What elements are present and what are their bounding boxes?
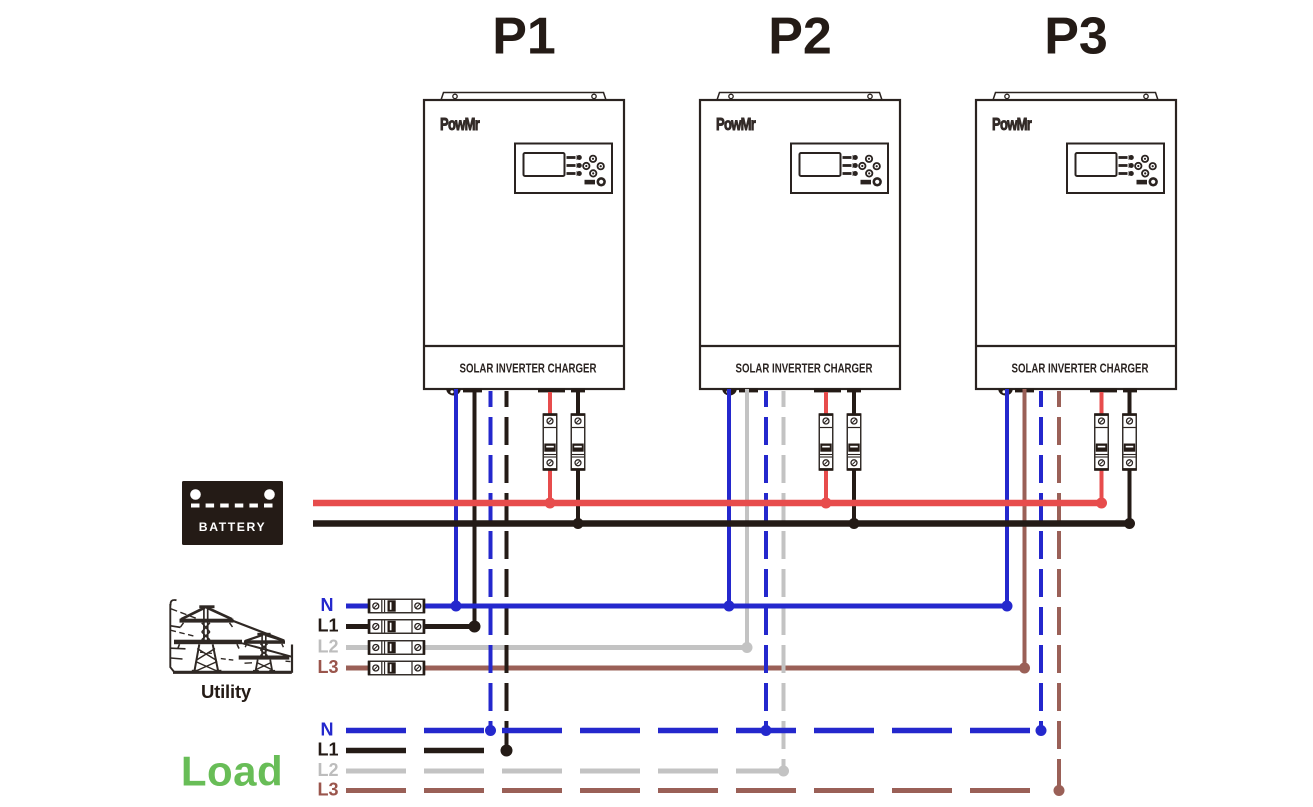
breaker P2 battery positive xyxy=(819,413,833,470)
svg-text:L1: L1 xyxy=(317,740,338,760)
inverter P2 separator line xyxy=(701,345,899,347)
breaker P3 battery positive xyxy=(1095,413,1109,470)
inverter P3 body xyxy=(976,100,1176,389)
svg-text:L2: L2 xyxy=(317,637,338,657)
svg-text:PowMr: PowMr xyxy=(716,115,756,134)
junction P3 N out / load N bus xyxy=(1036,725,1047,736)
junction P2 N out / load N bus xyxy=(761,725,772,736)
wire battery negative bus (black) xyxy=(313,520,1130,527)
inverter P1 mounting bracket xyxy=(441,93,606,101)
breaker utility N xyxy=(368,599,425,613)
wire load L1 bus (black dashed) xyxy=(346,748,484,754)
inverter P3 separator line xyxy=(977,345,1175,347)
wire load L3 bus (brown dashed) xyxy=(346,788,1048,793)
inverter P3 mounting bracket xyxy=(993,93,1158,101)
svg-text:L2: L2 xyxy=(317,760,338,780)
svg-text:PowMr: PowMr xyxy=(440,115,480,134)
wire utility N bus (blue) xyxy=(346,604,1007,609)
junction P2 battery+ / red bus xyxy=(821,498,832,509)
junction P2 L2 / utility L2 bus xyxy=(742,642,753,653)
wire P1 AC input N (blue) xyxy=(454,389,458,606)
svg-text:PowMr: PowMr xyxy=(992,115,1032,134)
wire P3 AC output N (blue dashed) xyxy=(1039,391,1043,731)
wire P1 battery positive (red) xyxy=(548,392,552,503)
svg-text:P3: P3 xyxy=(1044,8,1108,66)
svg-text:Load: Load xyxy=(181,748,283,795)
battery icon xyxy=(182,481,283,545)
wire utility L2 bus (gray) xyxy=(346,645,747,650)
wire utility L3 bus (brown) xyxy=(346,666,1025,671)
junction P1 N out / load N bus xyxy=(485,725,496,736)
breaker utility L1 xyxy=(368,620,425,634)
inverter P1 body xyxy=(424,100,624,389)
wire P1 AC output L1 (dashed) xyxy=(505,391,509,751)
inverter P1 separator line xyxy=(425,345,623,347)
junction P2 battery- / black bus xyxy=(849,518,860,529)
inverter P3 xyxy=(976,93,1176,396)
junction P2 N / utility N bus xyxy=(724,601,735,612)
utility icon (transmission towers) xyxy=(170,600,292,673)
wire P1 AC input L1 xyxy=(473,389,477,627)
inverter P1 bottom terminal details xyxy=(446,389,585,396)
svg-text:P2: P2 xyxy=(768,8,832,66)
wire P3 AC output L3 (dashed) xyxy=(1057,391,1061,791)
wire load L2 bus (gray dashed) xyxy=(346,769,784,774)
junction P1 N / utility N bus xyxy=(451,601,462,612)
wire load N bus (blue dashed) xyxy=(346,728,1041,734)
inverter P3 display panel xyxy=(1067,144,1164,194)
breaker P2 battery negative xyxy=(847,413,861,470)
junction P3 battery- / black bus xyxy=(1124,518,1135,529)
wire utility L1 bus (black) xyxy=(346,624,475,629)
breaker utility L3 xyxy=(368,661,425,675)
svg-text:SOLAR INVERTER CHARGER: SOLAR INVERTER CHARGER xyxy=(1012,361,1149,376)
svg-text:L3: L3 xyxy=(317,780,338,800)
svg-text:BATTERY: BATTERY xyxy=(199,520,266,534)
inverter P2 display panel xyxy=(791,144,888,194)
wire P2 AC input N (blue) xyxy=(727,389,731,606)
wire P2 battery negative (black) xyxy=(852,392,856,524)
svg-text:Utility: Utility xyxy=(201,681,252,702)
inverter P1 xyxy=(424,93,624,396)
wire P3 AC input L3 xyxy=(1023,389,1027,668)
inverter P2 mounting bracket xyxy=(717,93,882,101)
wire P1 battery negative (black) xyxy=(576,392,580,524)
junction P3 L3 out / load L3 bus xyxy=(1054,785,1065,796)
junction P1 battery- / black bus xyxy=(573,518,584,529)
junction P3 battery+ / red bus xyxy=(1096,498,1107,509)
breaker P3 battery negative xyxy=(1123,413,1137,470)
junction P1 L1 / utility L1 bus xyxy=(469,621,481,633)
inverter P2 xyxy=(700,93,900,396)
wire P3 battery negative (black) xyxy=(1128,392,1132,524)
junction P1 L1 out / load L1 bus xyxy=(501,745,513,757)
svg-text:L3: L3 xyxy=(317,657,338,677)
svg-text:SOLAR INVERTER CHARGER: SOLAR INVERTER CHARGER xyxy=(460,361,597,376)
junction P2 L2 out / load L2 bus xyxy=(778,766,789,777)
inverter P2 body xyxy=(700,100,900,389)
junction P1 battery+ / red bus xyxy=(545,498,556,509)
svg-text:N: N xyxy=(321,595,334,615)
svg-text:L1: L1 xyxy=(317,616,338,636)
wire P1 AC output N (blue dashed) xyxy=(489,391,493,731)
svg-text:SOLAR INVERTER CHARGER: SOLAR INVERTER CHARGER xyxy=(736,361,873,376)
breaker utility L2 xyxy=(368,641,425,655)
inverter P2 bottom terminal details xyxy=(722,389,861,396)
inverter P1 display panel xyxy=(515,144,612,194)
wire P3 AC input N (blue) xyxy=(1005,389,1009,606)
breaker P1 battery positive xyxy=(543,413,557,470)
wire P2 battery positive (red) xyxy=(824,392,828,503)
junction P3 N / utility N bus xyxy=(1002,601,1013,612)
wire P2 AC input L2 xyxy=(745,389,749,648)
svg-text:P1: P1 xyxy=(492,8,556,66)
junction P3 L3 / utility L3 bus xyxy=(1019,663,1030,674)
inverter P3 bottom terminal details xyxy=(998,389,1137,396)
wire P2 AC output L2 (dashed) xyxy=(782,391,786,771)
wire P3 battery positive (red) xyxy=(1100,392,1104,503)
wire battery positive bus (red) xyxy=(313,500,1102,507)
svg-text:N: N xyxy=(321,720,334,740)
wire P2 AC output N (blue dashed) xyxy=(764,391,768,731)
breaker P1 battery negative xyxy=(571,413,585,470)
